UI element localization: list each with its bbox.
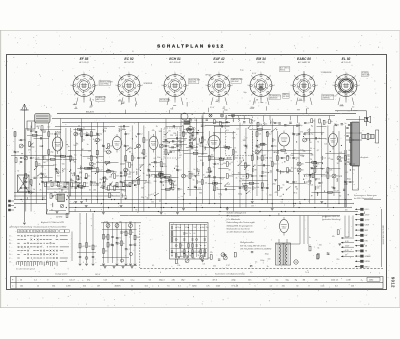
svg-text:15k: 15k [303,151,306,153]
svg-text:EAF 42: EAF 42 [213,57,224,61]
svg-text:C 52: C 52 [226,265,230,267]
svg-text:12k: 12k [124,160,127,162]
svg-text:0,2: 0,2 [257,154,260,156]
svg-text:3n: 3n [197,280,199,282]
svg-text:500: 500 [218,193,221,195]
svg-text:5k: 5k [82,167,84,169]
svg-text:ALT: EL 41: ALT: EL 41 [340,61,350,64]
svg-text:500: 500 [344,184,347,186]
svg-text:0,2: 0,2 [202,264,205,266]
svg-text:2k: 2k [33,158,35,160]
svg-text:EF 85: EF 85 [80,57,89,61]
svg-text:500: 500 [110,171,113,173]
svg-text:L: L [9,247,10,249]
svg-text:4,7: 4,7 [325,172,328,174]
svg-text:EABC 80: EABC 80 [297,57,311,61]
svg-text:8µ: 8µ [105,177,107,179]
svg-text:4: 4 [355,95,356,97]
svg-text:300p: 300p [194,150,198,152]
svg-text:15k: 15k [141,153,144,155]
svg-text:0,5: 0,5 [239,180,242,182]
svg-text:4,7: 4,7 [205,177,208,179]
svg-text:1k: 1k [295,192,297,194]
svg-text:1k: 1k [234,147,236,149]
svg-text:UKW: UKW [365,225,370,227]
svg-text:250: 250 [331,187,334,189]
svg-text:2: 2 [138,76,139,78]
svg-text:0,5: 0,5 [271,122,273,124]
svg-text:70: 70 [80,155,82,157]
svg-text:25p: 25p [104,151,107,153]
svg-text:300p: 300p [224,109,228,111]
svg-text:50k: 50k [94,141,97,143]
svg-text:Spulendaten siehe Abgleichanle: Spulendaten siehe Abgleichanleitung [215,273,245,276]
svg-text:5n: 5n [132,232,134,234]
svg-text:gestrichelt: UKW-Teil: gestrichelt: UKW-Teil [322,215,340,218]
svg-text:60: 60 [287,155,289,157]
svg-text:47k: 47k [210,252,213,254]
svg-text:U¹ = Kurzwelle: U¹ = Kurzwelle [227,215,241,218]
svg-text:25p: 25p [43,131,46,133]
svg-text:1n: 1n [68,146,70,148]
svg-text:60: 60 [206,172,208,174]
svg-text:4,7: 4,7 [36,177,38,179]
svg-text:300p: 300p [30,147,34,149]
svg-text:0,5: 0,5 [228,158,231,160]
svg-text:70: 70 [17,170,19,172]
svg-text:5k: 5k [97,162,99,164]
svg-text:0,47: 0,47 [306,176,310,178]
svg-text:1n: 1n [289,158,291,160]
svg-text:2k: 2k [156,126,158,128]
svg-text:8µ: 8µ [163,174,165,176]
svg-text:6,3V~: 6,3V~ [365,209,371,211]
svg-text:7 4 6: 7 4 6 [305,272,309,274]
svg-text:47k: 47k [339,176,342,178]
svg-text:10n: 10n [73,183,76,185]
svg-text:6: 6 [74,95,75,97]
svg-text:60: 60 [249,175,251,177]
svg-text:3n: 3n [135,210,137,212]
svg-text:3n: 3n [313,120,315,122]
svg-text:2: 2 [228,76,229,78]
svg-text:6: 6 [209,95,210,97]
svg-text:5n: 5n [240,178,242,180]
svg-text:240: 240 [172,280,175,282]
svg-text:55: 55 [149,280,151,282]
svg-text:47n 6: 47n 6 [212,280,217,282]
svg-text:70: 70 [92,100,94,102]
svg-text:12k: 12k [254,176,257,178]
svg-text:4: 4 [93,95,94,97]
svg-text:Dr2: Dr2 [145,285,148,288]
svg-text:10n: 10n [290,155,293,157]
svg-text:220: 220 [88,150,91,152]
svg-text:220k 14: 220k 14 [331,280,338,282]
svg-text:300p: 300p [238,194,242,196]
svg-text:30: 30 [203,125,205,127]
svg-text:15k: 15k [151,202,154,204]
svg-text:0,2: 0,2 [323,158,326,160]
svg-text:4,7: 4,7 [65,192,68,194]
svg-text:300p: 300p [248,188,252,190]
svg-text:ALT: EC 92: ALT: EC 92 [123,61,134,64]
svg-text:15k: 15k [177,265,180,267]
svg-text:70: 70 [45,176,47,178]
svg-text:12k: 12k [128,177,131,179]
svg-text:2k: 2k [40,189,42,191]
svg-text:0,47: 0,47 [307,123,310,125]
svg-text:47k: 47k [286,173,289,175]
svg-text:20k: 20k [129,221,132,223]
svg-text:1M: 1M [302,280,305,282]
svg-text:10: 10 [20,280,22,282]
svg-text:4,7: 4,7 [245,163,248,165]
svg-text:1n: 1n [228,122,230,124]
svg-text:1k: 1k [242,158,244,160]
svg-text:2k: 2k [274,140,276,142]
svg-text:15k: 15k [50,134,53,136]
svg-text:0,47: 0,47 [136,169,140,171]
svg-text:7: 7 [332,85,333,87]
svg-text:12k: 12k [330,170,333,172]
svg-text:250: 250 [272,183,275,185]
svg-text:5: 5 [337,111,338,113]
svg-text:5n: 5n [345,123,347,125]
svg-text:5n: 5n [263,280,265,282]
svg-text:300p: 300p [299,125,303,127]
svg-text:100: 100 [200,160,203,162]
svg-text:ANSCHLUSSLEISTE: ANSCHLUSSLEISTE [382,225,385,245]
svg-text:EM 34: EM 34 [280,70,285,72]
svg-text:47k: 47k [123,129,126,131]
svg-text:70: 70 [83,188,85,190]
svg-text:bei allen Geräten gleich: bei allen Geräten gleich [16,268,35,271]
svg-text:0,1: 0,1 [152,265,154,267]
svg-text:1: 1 [261,72,262,74]
svg-text:1n: 1n [64,169,66,171]
svg-text:1n: 1n [309,237,311,239]
svg-text:3n: 3n [185,134,187,136]
svg-text:47k: 47k [79,173,82,175]
svg-text:6: 6 [251,95,252,97]
svg-text:8: 8 [308,286,309,288]
svg-text:30: 30 [339,195,341,197]
svg-text:1n: 1n [111,195,113,197]
svg-text:60: 60 [308,132,310,134]
svg-text:70: 70 [177,227,179,229]
svg-text:8µ: 8µ [311,134,313,136]
svg-text:EM 34: EM 34 [256,57,266,61]
svg-text:1n: 1n [134,158,136,160]
svg-text:220: 220 [317,178,320,180]
svg-text:5k: 5k [131,183,133,185]
svg-text:SCHALTPLAN 9012: SCHALTPLAN 9012 [157,44,225,49]
svg-text:TONBLENDE: TONBLENDE [321,72,333,74]
svg-text:250: 250 [213,181,216,183]
svg-text:500: 500 [287,125,290,127]
svg-text:15k: 15k [39,146,42,148]
svg-text:Spannungen u. Ströme gem.: Spannungen u. Ströme gem. [354,194,377,197]
svg-text:1n: 1n [294,149,296,151]
svg-text:500: 500 [42,198,45,200]
svg-text:7: 7 [290,85,291,87]
svg-text:100: 100 [174,185,177,187]
svg-text:250: 250 [95,183,98,185]
svg-text:0,1: 0,1 [213,166,216,168]
svg-text:5k: 5k [33,189,35,191]
svg-text:KW: KW [365,240,368,242]
svg-text:0,47: 0,47 [335,191,339,193]
svg-text:0,35: 0,35 [321,286,325,288]
svg-text:47k: 47k [118,238,121,240]
svg-text:4,7: 4,7 [127,249,129,251]
svg-text:ALT: EABC 80: ALT: EABC 80 [297,61,311,64]
svg-text:10n: 10n [248,280,251,282]
svg-text:60: 60 [309,142,311,144]
svg-text:KW 16,7-50m MW 187-578m: KW 16,7-50m MW 187-578m [240,245,266,247]
svg-text:70: 70 [57,175,59,177]
svg-text:gezeichnete Schaltstellung · D: gezeichnete Schaltstellung · Drucktasten… [10,226,68,229]
svg-text:4,7: 4,7 [151,194,154,196]
svg-text:30: 30 [75,107,77,109]
svg-text:8: 8 [294,76,295,78]
svg-text:9012: 9012 [390,277,395,288]
svg-text:15k: 15k [216,100,219,102]
svg-text:1M: 1M [78,179,81,181]
svg-text:2k: 2k [246,148,248,150]
svg-text:30: 30 [337,163,339,165]
svg-text:12k: 12k [60,187,63,189]
svg-text:8µ: 8µ [181,256,183,258]
svg-text:25p: 25p [179,146,182,148]
svg-text:6: 6 [119,95,120,97]
svg-text:0,47: 0,47 [171,184,175,186]
svg-text:(/DM 70): (/DM 70) [257,62,265,64]
svg-text:3: 3 [317,85,318,87]
svg-text:an allen Buchsen abgeschaltet: an allen Buchsen abgeschaltet [227,231,255,234]
svg-text:2k: 2k [163,182,165,184]
svg-text:15k: 15k [310,154,313,156]
svg-text:5k: 5k [193,179,195,181]
svg-text:60: 60 [115,171,117,173]
svg-text:0,5: 0,5 [259,134,262,136]
svg-text:8: 8 [119,76,120,78]
svg-text:Ausgleich: Ausgleich [360,156,369,159]
svg-text:50k: 50k [153,161,156,163]
svg-text:25p: 25p [259,176,262,178]
svg-text:4: 4 [313,95,314,97]
svg-text:5: 5 [254,286,255,288]
svg-text:300p: 300p [146,175,150,177]
svg-text:2M: 2M [59,132,62,134]
svg-text:5n: 5n [352,182,354,184]
svg-text:100: 100 [323,176,326,178]
svg-text:1: 1 [175,72,176,74]
svg-text:30: 30 [120,172,122,174]
svg-text:1n: 1n [252,151,254,153]
svg-text:0,5: 0,5 [175,135,178,137]
svg-text:0,3M: 0,3M [66,286,71,288]
svg-text:10n: 10n [70,187,73,189]
svg-text:4,7: 4,7 [326,122,328,124]
svg-text:60: 60 [194,233,196,235]
svg-text:47k: 47k [48,181,51,183]
svg-text:25p: 25p [141,197,144,199]
svg-text:500: 500 [185,176,188,178]
svg-text:3n: 3n [352,140,354,142]
svg-text:5n: 5n [321,182,323,184]
svg-text:0,5: 0,5 [154,158,157,160]
svg-text:1k: 1k [235,177,237,179]
svg-text:47k: 47k [93,185,96,187]
svg-text:47k: 47k [352,170,355,172]
svg-text:8µ: 8µ [110,152,112,154]
svg-text:1M: 1M [163,177,166,179]
svg-text:4,7: 4,7 [119,100,121,102]
svg-text:0,2: 0,2 [172,152,175,154]
svg-text:460kHz: 460kHz [114,286,120,288]
svg-text:0,47: 0,47 [250,155,254,157]
svg-text:6 2: 6 2 [178,286,181,288]
svg-text:1M: 1M [71,181,74,183]
svg-text:ALT: EAF 41: ALT: EAF 41 [213,61,225,64]
svg-text:3: 3 [359,85,360,87]
svg-text:47k: 47k [148,165,151,167]
svg-text:2k: 2k [124,191,126,193]
svg-text:3: 3 [97,85,98,87]
svg-text:10n: 10n [157,157,160,159]
svg-text:0,1: 0,1 [281,202,283,204]
svg-text:15k: 15k [238,172,241,174]
svg-text:100: 100 [256,187,259,189]
svg-text:NETZ: NETZ [365,266,371,268]
svg-text:(ANT/OSZ): (ANT/OSZ) [96,98,105,101]
svg-text:10n: 10n [33,130,36,132]
svg-text:7: 7 [247,85,248,87]
svg-text:5k: 5k [140,158,142,160]
svg-text:0,1: 0,1 [330,176,333,178]
svg-text:4,7: 4,7 [179,155,182,157]
svg-text:300p: 300p [308,180,312,182]
svg-text:50k: 50k [235,158,238,160]
svg-text:4,7: 4,7 [122,163,125,165]
svg-text:300p: 300p [229,176,233,178]
svg-text:0,1: 0,1 [243,145,246,147]
svg-text:B: B [53,231,54,233]
svg-text:8µ: 8µ [127,173,129,175]
svg-text:10n: 10n [105,251,108,253]
svg-text:8: 8 [165,76,166,78]
svg-text:3n: 3n [193,169,195,171]
svg-text:2k: 2k [59,172,61,174]
svg-text:3: 3 [188,85,189,87]
svg-text:ALT: ECH 42: ALT: ECH 42 [169,61,182,64]
svg-text:50µ: 50µ [244,92,247,94]
svg-text:50k: 50k [257,147,260,149]
svg-text:220: 220 [213,265,216,267]
svg-text:0,2: 0,2 [140,134,143,136]
svg-text:300p: 300p [123,195,127,197]
svg-text:2k: 2k [307,108,309,110]
svg-text:0,5: 0,5 [181,245,183,247]
svg-text:1,2: 1,2 [270,286,273,288]
svg-text:4: 4 [361,280,362,282]
svg-text:5k: 5k [181,122,183,124]
svg-text:25p: 25p [54,192,57,194]
svg-text:220p: 220p [231,280,235,282]
svg-text:2: 2 [355,76,356,78]
svg-text:2: 2 [184,76,185,78]
svg-text:8: 8 [251,76,252,78]
svg-text:6: 6 [165,95,166,97]
svg-text:3: 3 [274,85,275,87]
svg-text:1: 1 [219,72,220,74]
svg-text:1k: 1k [203,112,205,114]
svg-text:4: 4 [160,272,161,274]
svg-text:(TIEFEN): (TIEFEN) [322,98,330,100]
svg-text:120p: 120p [120,280,124,282]
svg-text:60: 60 [263,143,265,145]
svg-text:1: 1 [346,72,347,74]
svg-text:3: 3 [232,85,233,87]
svg-text:Tr1: Tr1 [167,285,170,288]
svg-text:LW 700-2000m UKW 87,5-100MHz: LW 700-2000m UKW 87,5-100MHz [240,249,271,251]
svg-text:0,2: 0,2 [346,172,349,174]
svg-text:30: 30 [23,146,25,148]
svg-text:LW: LW [365,235,368,237]
svg-text:30: 30 [229,164,231,166]
svg-text:50k: 50k [190,119,193,121]
svg-text:5k: 5k [202,146,204,148]
svg-text:EC 92: EC 92 [124,57,133,61]
svg-text:220: 220 [109,177,112,179]
svg-text:(gedruckte Schaltung): (gedruckte Schaltung) [322,218,341,221]
svg-text:2080: 2080 [369,279,373,281]
svg-text:3n: 3n [306,140,308,142]
svg-text:460 KHZ: 460 KHZ [232,81,240,83]
svg-text:10n: 10n [311,176,314,178]
svg-text:ERDE: ERDE [365,261,371,263]
svg-text:Abgleich 10,7 MHz bei UKW: Abgleich 10,7 MHz bei UKW [40,221,64,224]
svg-text:3n: 3n [89,190,91,192]
svg-text:2M: 2M [191,148,194,150]
svg-text:460 KHZ: 460 KHZ [189,82,197,84]
svg-text:70: 70 [41,178,43,180]
svg-text:100: 100 [274,164,277,166]
svg-text:2M: 2M [97,286,100,288]
svg-text:25p: 25p [274,146,277,148]
svg-text:25p: 25p [50,152,53,154]
svg-text:MW: MW [365,230,369,232]
svg-text:0,5: 0,5 [305,183,308,185]
svg-text:1M: 1M [223,146,226,148]
svg-text:12: 12 [131,286,133,288]
svg-text:2k: 2k [296,189,298,191]
svg-text:8µ: 8µ [189,255,191,257]
svg-text:70: 70 [170,108,172,110]
svg-text:1k: 1k [267,266,269,268]
svg-text:60: 60 [349,150,351,152]
svg-text:12k: 12k [232,137,235,139]
svg-text:1n: 1n [74,154,76,156]
svg-text:50k: 50k [330,159,333,161]
svg-text:4: 4 [184,95,185,97]
svg-text:4,7: 4,7 [192,176,195,178]
svg-text:S: S [47,231,48,233]
svg-text:47p: 47p [87,280,90,282]
svg-text:8: 8 [74,76,75,78]
